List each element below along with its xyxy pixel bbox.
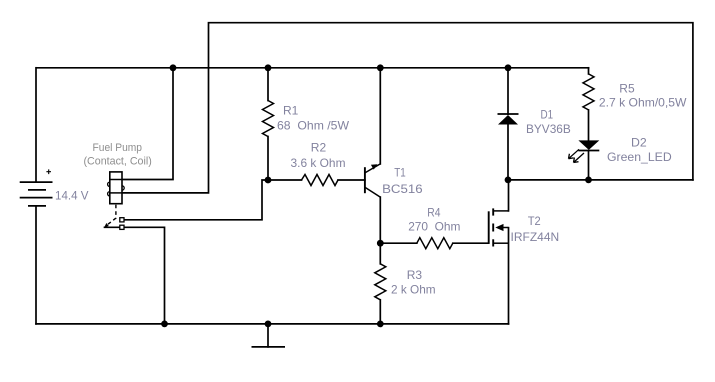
resistor R5 — [583, 74, 594, 110]
svg-text:270 Ohm: 270 Ohm — [408, 220, 460, 234]
LED D2 triangle — [578, 140, 599, 150]
node R1/R2 junction — [265, 177, 272, 184]
node R3 bottom — [377, 321, 384, 328]
ground symbol — [252, 346, 286, 348]
diode D1 cathode bar — [498, 113, 519, 115]
svg-text:3.6 k Ohm: 3.6 k Ohm — [291, 156, 346, 170]
fuel pump right coil bump — [120, 186, 124, 190]
node ground stem — [265, 321, 272, 328]
svg-text:2.7 k Ohm/0,5W: 2.7 k Ohm/0,5W — [599, 96, 687, 110]
resistor R1 — [263, 101, 274, 137]
T1 collector diagonal — [365, 187, 380, 197]
wire R4 left lead — [380, 242, 417, 244]
node LED cathode — [585, 177, 592, 184]
wire +14V rail y=66.5 — [37, 67, 589, 69]
wire R1 bottom lead — [267, 137, 269, 181]
svg-text:BYV36B: BYV36B — [526, 122, 571, 136]
wire R5 bottom lead to LED — [588, 110, 590, 140]
svg-text:14.4 V: 14.4 V — [55, 189, 89, 203]
switch bottom contact terminal — [120, 225, 124, 229]
svg-text:R2: R2 — [311, 141, 327, 155]
wire LED cathode to drain node rail — [588, 151, 590, 180]
svg-text:68 Ohm /5W: 68 Ohm /5W — [277, 119, 350, 133]
node pump-coil / +14V rail — [170, 64, 177, 71]
T2 body stub — [504, 227, 509, 229]
wire T1 collector down to node — [379, 197, 381, 243]
wire R1 top lead — [267, 68, 269, 101]
transistor T1 base bar — [364, 167, 366, 193]
wire R2 right lead to T1 base — [338, 179, 365, 181]
wire R4 right lead to T2 gate — [453, 242, 489, 244]
LED D2 light arrow 1 — [569, 149, 580, 158]
switch actuation dashed link — [106, 205, 116, 226]
wire drain node rail y=178.5 — [508, 179, 693, 181]
wire pump top terminal to +14V rail — [122, 68, 173, 180]
wire switch top contact to R2 node — [124, 180, 268, 220]
T1 emitter diagonal — [365, 164, 380, 173]
node R1 top — [265, 64, 272, 71]
wire T2 drain vertical — [508, 180, 510, 211]
wire battery bottom stem — [35, 206, 37, 324]
battery 14.4 V — [20, 182, 53, 206]
wire T2 source vertical to ground rail — [508, 228, 510, 324]
junction node dots — [161, 64, 592, 327]
T1 emitter arrow — [371, 164, 378, 169]
node D1 top — [505, 64, 512, 71]
fuel pump internal divider 1 — [110, 179, 122, 181]
battery plus sign — [46, 169, 51, 174]
switch top contact terminal — [120, 218, 124, 222]
wire R5 top lead — [588, 68, 590, 74]
resistor R2 — [302, 175, 339, 186]
node D1 / T2 drain — [505, 177, 512, 184]
wire R2 left lead — [268, 179, 302, 181]
T2 body arrow — [495, 224, 503, 231]
svg-text:BC516: BC516 — [382, 182, 423, 196]
svg-text:R1: R1 — [283, 104, 299, 118]
svg-text:R3: R3 — [407, 268, 423, 282]
svg-text:T1: T1 — [394, 166, 406, 180]
wire ground stem — [267, 324, 269, 347]
node T1 emitter rail — [377, 64, 384, 71]
svg-text:2 k Ohm: 2 k Ohm — [391, 283, 436, 297]
svg-text:R5: R5 — [619, 82, 635, 96]
wire battery top stem — [35, 68, 37, 182]
wire R3 bottom lead — [379, 300, 381, 324]
T2 drain stub — [493, 210, 508, 212]
svg-text:D1: D1 — [541, 108, 554, 122]
wire R3 top lead — [379, 243, 381, 264]
resistor R4 — [417, 238, 453, 249]
fuel pump coil bumps — [108, 182, 112, 196]
svg-text:R4: R4 — [427, 206, 440, 220]
LED D2 light arrow 2 — [574, 153, 585, 163]
MOSFET T2 gate bar — [488, 211, 490, 243]
svg-text:Fuel Pump: Fuel Pump — [93, 142, 143, 154]
T2 source stub — [493, 242, 508, 244]
fuel pump internal divider 2 — [110, 192, 122, 194]
wire T1 emitter to +14V rail — [379, 68, 381, 164]
wire bottom ground rail — [36, 323, 509, 325]
wire switch bottom contact to ground rail — [105, 227, 165, 324]
T2 channel bar top — [492, 208, 494, 215]
node switch return on ground rail — [161, 321, 168, 328]
svg-text:(Contact, Coil): (Contact, Coil) — [84, 155, 152, 167]
diode D1 triangle — [498, 115, 518, 125]
LED D2 cathode bar — [578, 150, 599, 152]
wire top rail from pump middle terminal up and across to right edge — [122, 23, 693, 193]
node T1 collector / R3 / R4 — [377, 240, 384, 247]
T2 channel bar bottom — [492, 239, 494, 246]
T2 channel bar middle — [492, 224, 494, 232]
fuel pump body — [110, 172, 122, 204]
resistor R3 — [375, 264, 386, 300]
switch blade arrowhead — [104, 223, 109, 227]
wire D1 bottom lead to drain node — [507, 125, 509, 180]
svg-text:Green_LED: Green_LED — [607, 150, 672, 164]
svg-text:T2: T2 — [528, 214, 541, 228]
svg-text:D2: D2 — [631, 136, 647, 150]
svg-text:IRFZ44N: IRFZ44N — [511, 230, 560, 244]
wire D1 top lead from +14V rail — [507, 68, 509, 114]
